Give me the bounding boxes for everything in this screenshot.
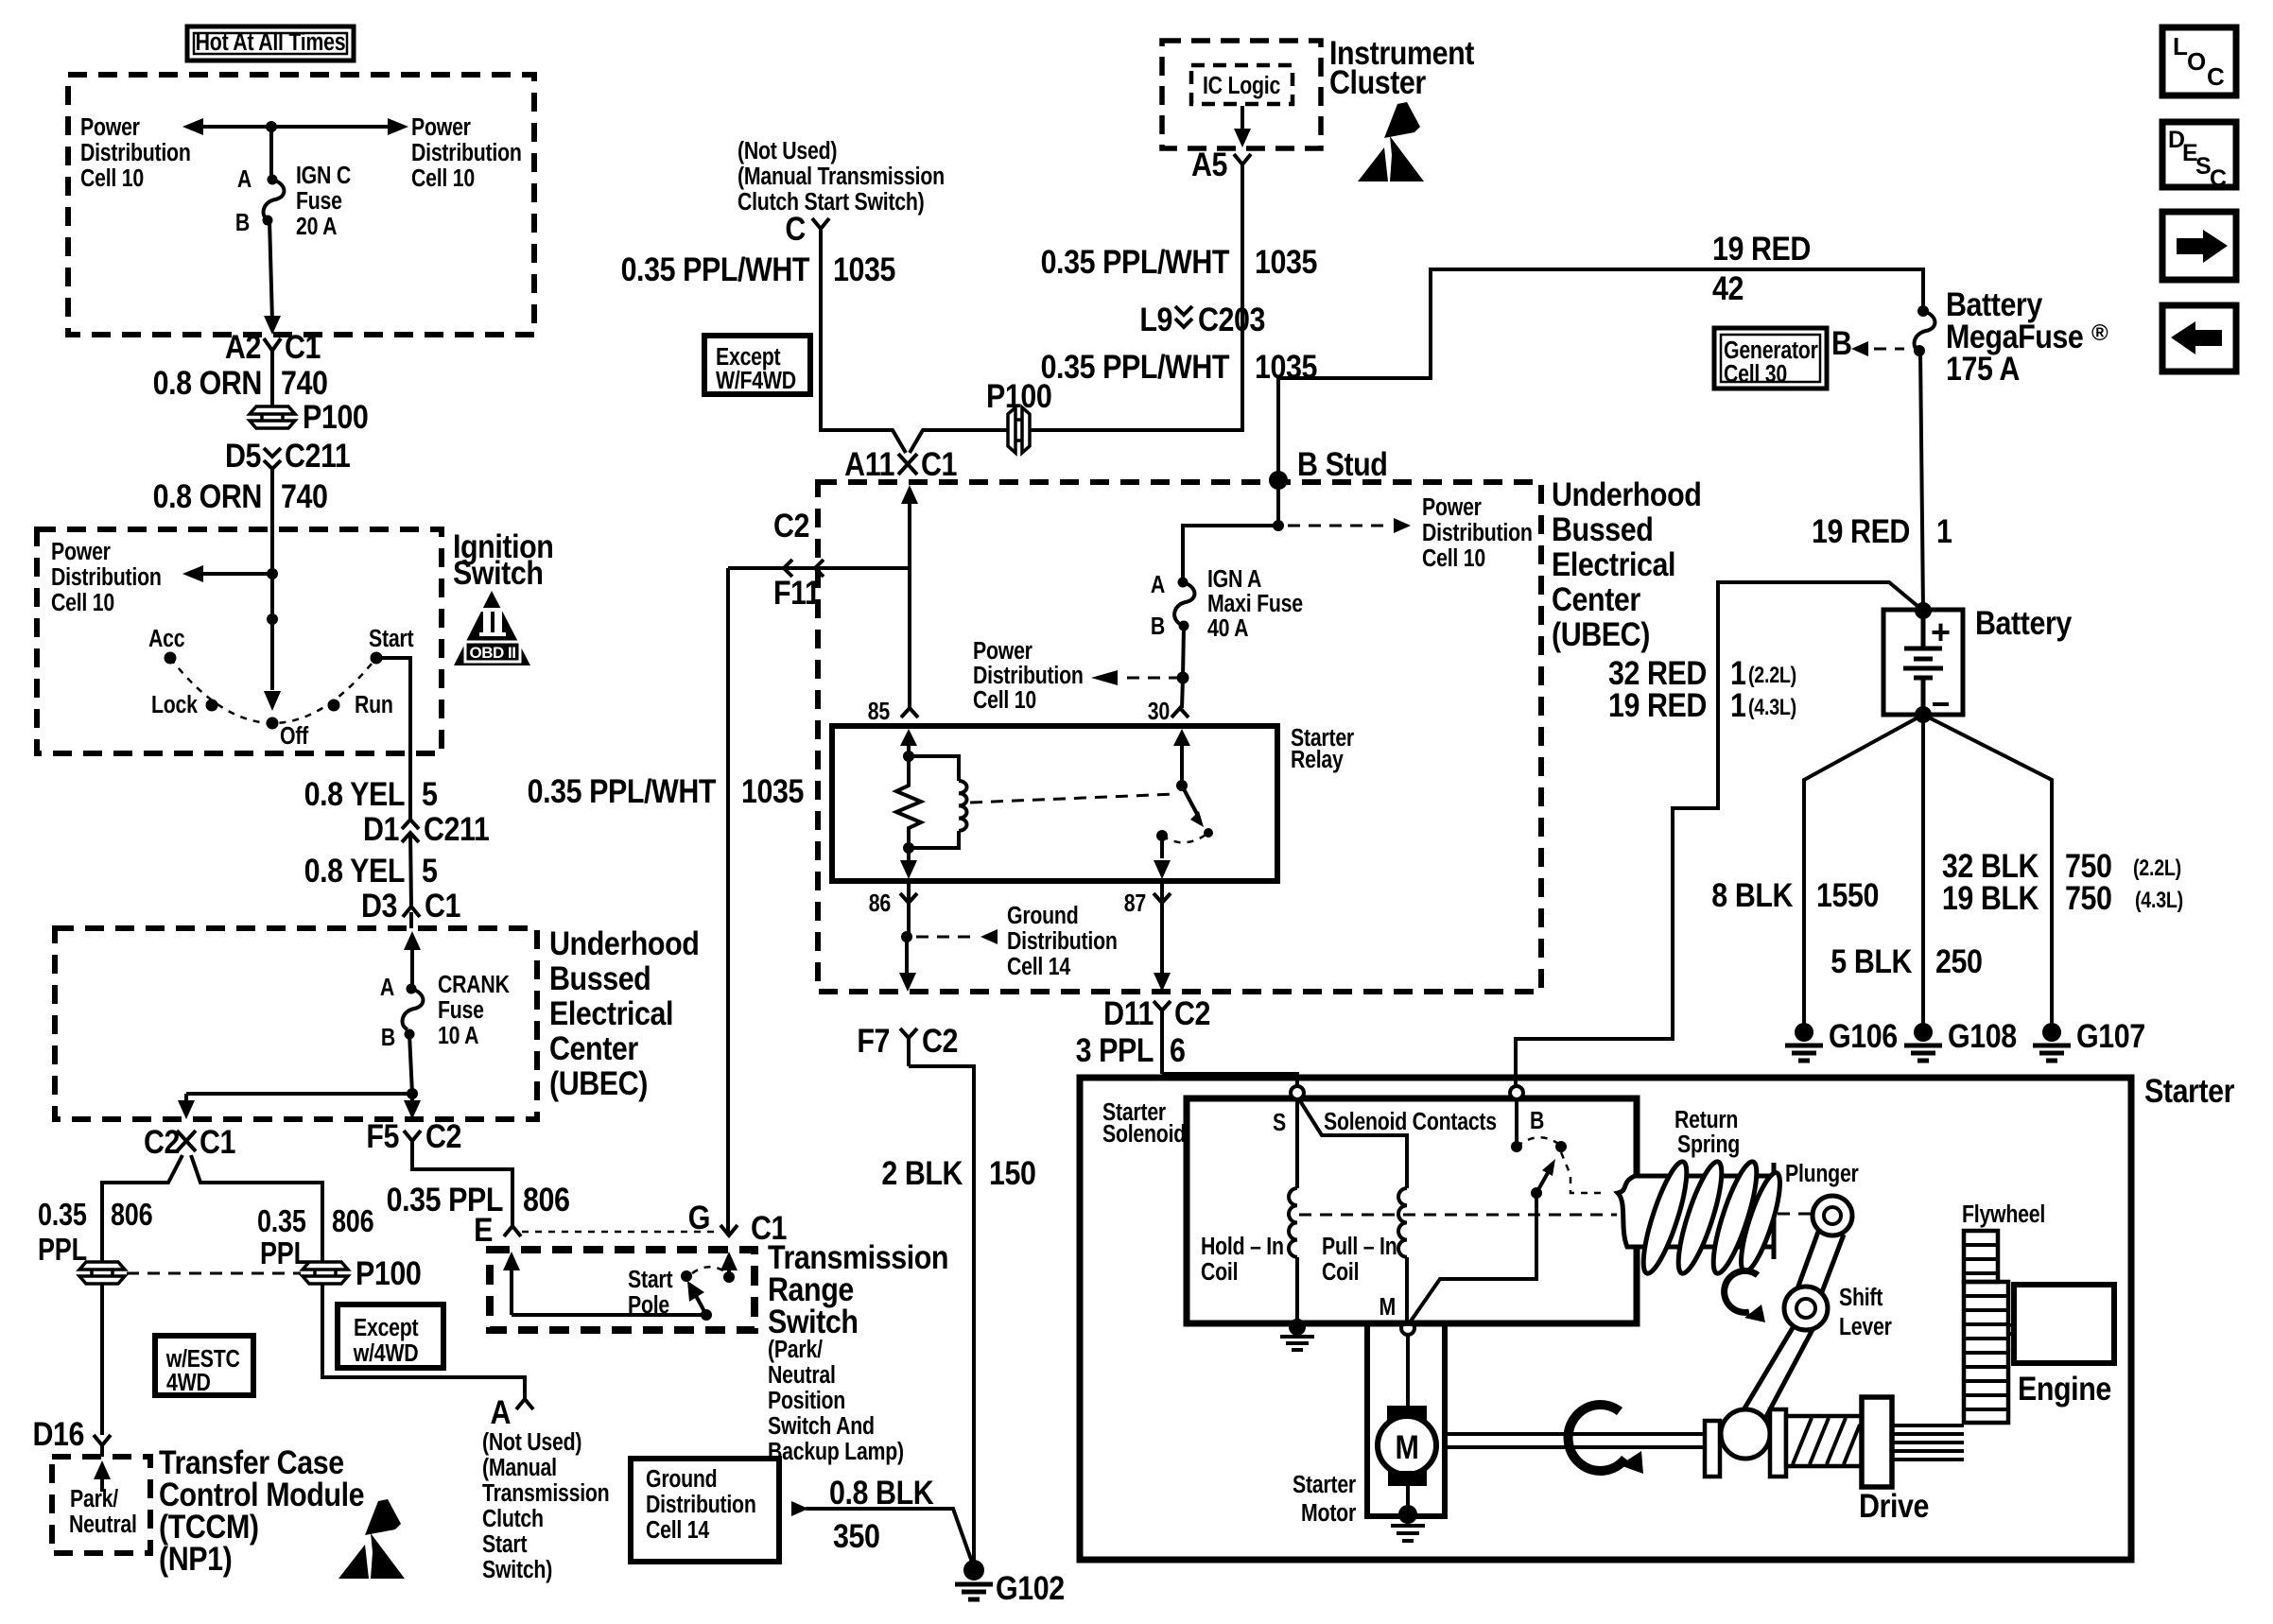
wire switch to 87 [1154, 836, 1171, 879]
svg-text:B: B [1831, 324, 1852, 361]
wire start pole common [512, 1309, 712, 1321]
label 0.35 PPL/WHT 1035 (lower) [1041, 348, 1318, 385]
connector F5/C2 [366, 1117, 461, 1155]
label Transmission Range Switch [768, 1238, 948, 1339]
svg-text:G107: G107 [2076, 1017, 2145, 1054]
label 0.8 YEL 5 (lower) [304, 852, 438, 889]
wire fuse B to box edge [264, 220, 281, 335]
svg-text:Fuse: Fuse [438, 996, 484, 1025]
svg-text:Ground: Ground [1007, 902, 1078, 930]
label Power Distribution Cell 10 (right) [411, 113, 522, 193]
svg-text:Distribution: Distribution [1422, 519, 1533, 547]
svg-text:Off: Off [280, 722, 308, 751]
label Transfer Case Control Module (TCCM) (NP1) [159, 1443, 364, 1577]
rotation arrow (shift lever) [1725, 1270, 1765, 1322]
label Park/Neutral [69, 1485, 137, 1539]
svg-text:0.8 YEL: 0.8 YEL [304, 775, 406, 812]
svg-text:C2: C2 [144, 1123, 180, 1160]
node: power distribution bus arrow [182, 118, 408, 135]
label Power Distribution Cell 10 (B stud) [1422, 493, 1533, 573]
svg-text:1035: 1035 [741, 772, 804, 809]
label box "Hot At All Times" [187, 26, 354, 60]
svg-text:+: + [1931, 613, 1951, 651]
label 0.35 PPL/WHT 1035 (relay coil wire) [528, 772, 805, 809]
svg-text:IC Logic: IC Logic [1203, 72, 1280, 100]
svg-text:0.8 YEL: 0.8 YEL [304, 852, 406, 889]
wire S to pull-in coil [1299, 1099, 1407, 1188]
svg-text:Pull – In: Pull – In [1322, 1233, 1397, 1261]
svg-text:D3: D3 [361, 887, 397, 924]
label 0.35 PPL/WHT 1035 (upper) [1041, 243, 1318, 280]
svg-text:86: 86 [869, 890, 891, 918]
wire F5 to E [412, 1155, 512, 1225]
grommet P100 (horizontal wire) [986, 377, 1051, 453]
svg-text:Cell 14: Cell 14 [646, 1516, 710, 1545]
svg-text:0.8 BLK: 0.8 BLK [829, 1474, 934, 1511]
fuse CRANK 10 A [380, 971, 510, 1052]
resistor (relay coil suppression) [896, 756, 921, 848]
svg-text:Lever: Lever [1839, 1313, 1892, 1341]
grommet P100 (left) [79, 1262, 125, 1284]
label Ignition Switch [453, 527, 553, 591]
svg-text:C211: C211 [285, 437, 351, 474]
svg-text:(UBEC): (UBEC) [549, 1064, 648, 1101]
svg-text:Start: Start [369, 625, 414, 653]
wire fuse B down to junction [407, 1034, 418, 1099]
ground (hold-in coil) [1280, 1337, 1314, 1350]
svg-text:42: 42 [1712, 269, 1744, 306]
svg-text:Power: Power [411, 113, 471, 142]
connector A (not used) [490, 1393, 533, 1430]
label Power Distribution Cell 10 [51, 538, 162, 617]
rotation arrow (shaft) [1569, 1405, 1643, 1474]
svg-text:F11: F11 [773, 574, 821, 611]
svg-text:Power: Power [80, 113, 140, 142]
starter motor [1378, 1406, 1436, 1511]
svg-text:S: S [1273, 1109, 1286, 1137]
contact Start [681, 1270, 692, 1282]
svg-text:Hold – In: Hold – In [1201, 1233, 1284, 1261]
svg-text:(Not Used): (Not Used) [737, 137, 837, 165]
svg-text:Spring: Spring [1677, 1131, 1740, 1159]
switch arm start pole [687, 1281, 706, 1315]
svg-text:Transmission: Transmission [482, 1479, 609, 1508]
reference box arrow left [2162, 305, 2236, 371]
svg-text:(Manual: (Manual [482, 1454, 557, 1482]
ESD symbol (TCCM) [338, 1499, 405, 1579]
svg-text:Center: Center [1552, 580, 1640, 617]
wire arm to M [1410, 1193, 1536, 1322]
node power distribution tap (IGN A) [1091, 670, 1178, 685]
svg-text:5: 5 [422, 852, 438, 889]
svg-text:(UBEC): (UBEC) [1552, 615, 1650, 652]
svg-text:806: 806 [523, 1181, 570, 1218]
svg-text:Pole: Pole [628, 1291, 669, 1320]
label Starter Relay [1291, 724, 1354, 774]
dashed actuation link [970, 794, 1175, 803]
svg-text:Switch: Switch [453, 554, 544, 591]
svg-text:0.35: 0.35 [38, 1199, 87, 1233]
svg-text:Fuse: Fuse [296, 187, 342, 216]
wire 86 to F7 [899, 937, 916, 992]
svg-text:(Not Used): (Not Used) [482, 1428, 581, 1457]
wire to Off contact [264, 574, 281, 711]
label Pull-In Coil [1322, 1233, 1397, 1287]
connector D11/C2 [1103, 994, 1210, 1074]
wire G up to C2/F11 [726, 568, 730, 1235]
svg-text:D1: D1 [363, 810, 399, 847]
svg-text:B: B [235, 209, 250, 237]
svg-text:G106: G106 [1829, 1017, 1898, 1054]
label Instrument Cluster [1329, 34, 1474, 100]
connector A2/C1 [225, 328, 321, 365]
svg-text:740: 740 [281, 364, 328, 401]
label box Ground Distribution Cell 14 [631, 1459, 779, 1562]
connector C2/F11 [728, 507, 910, 611]
terminal 86 [869, 881, 917, 937]
UBEC box 3 (CRANK) dashed [55, 928, 537, 1119]
svg-text:20 A: 20 A [296, 213, 337, 241]
svg-text:C211: C211 [424, 810, 490, 847]
svg-text:PPL: PPL [260, 1237, 309, 1271]
label 0.35 PPL 806 (left) [38, 1199, 152, 1268]
svg-text:P100: P100 [986, 377, 1051, 414]
wire D3 into UBEC3 [404, 912, 421, 988]
svg-text:C1: C1 [200, 1123, 235, 1160]
wire hold-in coil to ground [1289, 1257, 1306, 1336]
ground G108 [1904, 1017, 2017, 1061]
svg-text:C1: C1 [285, 328, 321, 365]
svg-text:C2: C2 [922, 1022, 958, 1059]
svg-text:D11: D11 [1103, 994, 1154, 1031]
relay coil [903, 756, 967, 854]
ground G107 [2033, 1017, 2145, 1061]
svg-text:Battery: Battery [1975, 604, 2073, 641]
svg-text:Shift: Shift [1839, 1284, 1883, 1312]
svg-text:A: A [490, 1393, 511, 1430]
shaft flange [1705, 1421, 1720, 1477]
wire 0.8 YEL 5 [410, 833, 411, 907]
connector C [785, 210, 829, 247]
svg-text:Relay: Relay [1291, 746, 1345, 774]
svg-text:Solenoid: Solenoid [1102, 1120, 1186, 1149]
svg-text:Electrical: Electrical [1552, 545, 1675, 582]
svg-text:Except: Except [354, 1314, 419, 1342]
return spring + plunger [1618, 1106, 1859, 1277]
svg-text:Underhood: Underhood [1552, 475, 1701, 512]
svg-text:D5: D5 [225, 437, 261, 474]
mechanical link dashed [1299, 1214, 1617, 1217]
svg-text:Ground: Ground [646, 1465, 717, 1494]
wire left branch to D16 [100, 1284, 104, 1435]
svg-text:G: G [688, 1199, 710, 1235]
label 19 RED 1 [1812, 512, 1952, 549]
terminal M [1379, 1293, 1414, 1335]
wire 0.8 ORN 740 (lower) [270, 469, 274, 574]
svg-text:0.35 PPL/WHT: 0.35 PPL/WHT [528, 772, 717, 809]
svg-text:1: 1 [1730, 686, 1746, 723]
connector A11/C1 (X) [844, 445, 957, 482]
svg-text:Underhood: Underhood [549, 924, 699, 961]
wire G102 (0.8 BLK 350) [791, 1501, 974, 1567]
terminal 30 [1148, 698, 1189, 726]
wire bus to fuse A [269, 127, 273, 180]
wire C down [821, 229, 906, 453]
wire 0.8 ORN 740 (upper) [270, 363, 274, 406]
wire split below C2/C1 [102, 1155, 322, 1263]
svg-text:19 RED: 19 RED [1712, 230, 1811, 267]
connector L9/C203 [1139, 301, 1265, 337]
wire Start to D1 [376, 658, 410, 821]
svg-text:A: A [237, 165, 252, 194]
svg-text:PPL: PPL [38, 1234, 87, 1268]
svg-text:Cell 10: Cell 10 [80, 164, 144, 193]
label 0.8 ORN 740 [153, 477, 328, 514]
svg-text:Electrical: Electrical [549, 994, 673, 1031]
svg-text:Hot At All Times: Hot At All Times [196, 28, 346, 57]
OBD II symbol [454, 591, 530, 665]
svg-text:Distribution: Distribution [1007, 927, 1118, 956]
svg-text:0.35 PPL/WHT: 0.35 PPL/WHT [1041, 348, 1230, 385]
svg-text:87: 87 [1124, 890, 1146, 918]
svg-text:Position: Position [768, 1387, 845, 1415]
label box Generator Cell 30 [1714, 328, 1827, 389]
wire coil to 86 [900, 848, 917, 879]
drive shaft splines [1892, 1425, 1964, 1460]
svg-text:G108: G108 [1948, 1017, 2017, 1054]
terminal S [1273, 1086, 1304, 1137]
svg-text:Starter: Starter [1293, 1471, 1356, 1499]
svg-text:(NP1): (NP1) [159, 1540, 232, 1577]
label Power Distribution Cell 10 (left) [80, 113, 191, 193]
label 32 BLK 750 (2.2L) / 19 BLK 750 (4.3L) [1942, 847, 2183, 916]
svg-text:85: 85 [868, 698, 890, 726]
label (Park/Neutral Position Switch And Backup Lamp) [768, 1336, 904, 1466]
label box w/ESTC 4WD [155, 1336, 253, 1397]
drive ball [1721, 1409, 1770, 1459]
svg-text:0.35 PPL/WHT: 0.35 PPL/WHT [1041, 243, 1230, 280]
svg-text:Power: Power [51, 538, 111, 566]
wire battery+ to starter B (32 RED / 19 RED) [1516, 582, 1923, 1086]
dashed link plunger to shift lever [1778, 1213, 1812, 1216]
wire M to motor [1406, 1335, 1410, 1407]
svg-text:Start: Start [482, 1530, 528, 1559]
svg-text:Coil: Coil [1322, 1258, 1359, 1287]
grommet P100 (A2 wire) [250, 398, 368, 435]
svg-text:Distribution: Distribution [646, 1491, 756, 1519]
svg-text:F7: F7 [857, 1022, 890, 1059]
svg-text:19 BLK: 19 BLK [1942, 879, 2039, 916]
dashed throw arc [692, 1267, 726, 1273]
wire battery- to grounds [1804, 715, 2052, 1030]
connector D5/C211 [225, 437, 351, 474]
wire not-used link E to G (thin dashed) [522, 1231, 719, 1234]
svg-text:IGN C: IGN C [296, 162, 351, 190]
svg-text:Backup Lamp): Backup Lamp) [768, 1438, 904, 1466]
ESD symbol (instrument cluster) [1358, 102, 1424, 181]
IC Logic inner dashed box [1191, 65, 1293, 104]
label 0.8 BLK 350 [829, 1474, 934, 1554]
svg-text:Cell 10: Cell 10 [51, 589, 114, 617]
Instrument Cluster dashed box [1162, 41, 1321, 148]
drive spline bar [1770, 1409, 1786, 1477]
UBEC box 1 (Hot At All Times) dashed [68, 75, 534, 335]
label 3 PPL 6 [1076, 1031, 1186, 1068]
node B Stud [1269, 445, 1387, 490]
svg-text:A5: A5 [1191, 146, 1227, 182]
svg-text:Neutral: Neutral [768, 1361, 836, 1390]
svg-text:C2: C2 [773, 507, 809, 544]
svg-text:W/F4WD: W/F4WD [716, 367, 796, 395]
label 5 BLK 250 [1831, 942, 1982, 979]
svg-text:30: 30 [1148, 698, 1170, 726]
svg-text:C1: C1 [921, 445, 957, 482]
label 19 RED / 42 [1712, 230, 1811, 306]
svg-text:L9: L9 [1139, 301, 1172, 337]
fuse IGN A Maxi Fuse 40 A [1151, 565, 1303, 643]
svg-text:8 BLK: 8 BLK [1711, 876, 1794, 913]
label Underhood Bussed Electrical Center (UBEC) [549, 924, 699, 1101]
node E entry arrow [503, 1252, 520, 1315]
svg-text:A11: A11 [844, 445, 894, 482]
ground G106 [1785, 1017, 1898, 1061]
label 8 BLK 1550 [1711, 876, 1879, 913]
svg-text:Clutch: Clutch [482, 1505, 544, 1533]
svg-text:E: E [474, 1211, 493, 1248]
node G contact [720, 1252, 737, 1283]
svg-text:Distribution: Distribution [80, 139, 191, 167]
svg-text:Power: Power [1422, 493, 1482, 522]
svg-text:A: A [1151, 571, 1165, 599]
svg-text:D16: D16 [32, 1415, 84, 1452]
svg-text:Start: Start [628, 1266, 673, 1294]
wire megafuse to battery [1920, 351, 1923, 610]
svg-text:Distribution: Distribution [411, 139, 522, 167]
svg-text:w/4WD: w/4WD [353, 1339, 419, 1368]
svg-text:(4.3L): (4.3L) [2135, 887, 2183, 912]
svg-text:C: C [785, 210, 806, 247]
svg-text:Cell 14: Cell 14 [1007, 953, 1071, 981]
svg-text:1550: 1550 [1816, 876, 1879, 913]
svg-text:(Park/: (Park/ [768, 1336, 823, 1364]
label (Not Used)(Manual Transmission Clutch Start Switch) [482, 1428, 609, 1584]
svg-text:Run: Run [355, 691, 393, 719]
UBEC box 2 dashed [818, 482, 1541, 992]
connector A5 [1191, 146, 1251, 182]
svg-text:Acc: Acc [148, 625, 184, 653]
terminal B [1510, 1086, 1544, 1135]
svg-text:®: ® [2091, 320, 2108, 346]
reference box arrow right [2162, 212, 2236, 280]
svg-text:Lock: Lock [151, 691, 199, 719]
Starter Relay box [832, 726, 1277, 881]
svg-text:Cell 10: Cell 10 [411, 164, 475, 193]
svg-text:Flywheel: Flywheel [1962, 1201, 2045, 1229]
connector D16 [32, 1415, 111, 1457]
svg-text:Center: Center [549, 1029, 638, 1066]
svg-text:C1: C1 [425, 887, 460, 924]
label box Except w/4WD [338, 1304, 443, 1368]
svg-text:1035: 1035 [833, 251, 895, 287]
svg-text:4WD: 4WD [166, 1369, 211, 1397]
label 32 RED 1 (2.2L) / 19 RED 1 (4.3L) [1608, 654, 1796, 723]
label 0.35 PPL 806 [387, 1181, 570, 1218]
ignition switch contacts [148, 625, 414, 751]
svg-text:P100: P100 [303, 398, 368, 435]
svg-text:Solenoid Contacts: Solenoid Contacts [1324, 1108, 1497, 1136]
svg-text:C2: C2 [425, 1117, 461, 1154]
label Start Pole [628, 1266, 673, 1320]
grommet P100 (right) [303, 1254, 421, 1291]
wire A5 down [910, 164, 1242, 453]
svg-text:C: C [2210, 165, 2227, 192]
svg-text:Cell 10: Cell 10 [973, 686, 1036, 715]
svg-text:CRANK: CRANK [438, 971, 510, 999]
svg-text:P100: P100 [356, 1254, 421, 1291]
svg-text:19 RED: 19 RED [1812, 512, 1910, 549]
svg-text:Distribution: Distribution [51, 563, 162, 592]
solenoid switch arm [1531, 1159, 1555, 1199]
svg-text:Drive: Drive [1859, 1487, 1929, 1524]
Transmission Range Switch dashed box [490, 1250, 755, 1330]
svg-text:0.35: 0.35 [257, 1205, 306, 1239]
node Park/Neutral input arrow [94, 1460, 111, 1492]
svg-text:Cell 10: Cell 10 [1422, 544, 1485, 573]
svg-text:(4.3L): (4.3L) [1748, 694, 1796, 719]
svg-text:A: A [380, 974, 394, 1002]
pull-in coil [1398, 1188, 1407, 1257]
label Ground Distribution Cell 14 [1007, 902, 1118, 981]
relay switch [1156, 780, 1213, 842]
svg-text:806: 806 [332, 1205, 373, 1239]
svg-text:B Stud: B Stud [1297, 445, 1387, 482]
label (Not Used)(Manual Transmission Clutch Start Switch) top [737, 137, 945, 216]
node solenoid contact (moving) [1555, 1141, 1603, 1193]
wire 19 RED 42 [1278, 269, 1923, 480]
svg-text:C: C [2207, 62, 2225, 91]
label 0.8 YEL 5 (upper) [304, 775, 438, 812]
wire right branch to A (not used) [322, 1284, 525, 1398]
fuse Battery MegaFuse 175 A [1914, 285, 2108, 387]
svg-text:M: M [1396, 1428, 1419, 1465]
svg-text:5: 5 [422, 775, 438, 812]
svg-text:B: B [1530, 1107, 1544, 1135]
svg-text:Switch And: Switch And [768, 1412, 875, 1441]
drive helix [1786, 1416, 1862, 1466]
svg-text:M: M [1379, 1293, 1396, 1322]
label 0.8 ORN 740 [153, 364, 328, 401]
svg-text:Cluster: Cluster [1329, 63, 1426, 100]
node 30 entry arrow [1173, 729, 1190, 786]
label Starter Solenoid [1102, 1098, 1186, 1149]
svg-text:40 A: 40 A [1207, 614, 1248, 643]
label Hold-In Coil [1201, 1233, 1284, 1287]
dashed contact arc B [1517, 1137, 1561, 1147]
label 0.35 PPL 806 (middle) [257, 1205, 373, 1271]
svg-text:Motor: Motor [1301, 1499, 1356, 1528]
hold-in coil [1289, 1188, 1297, 1257]
svg-text:175 A: 175 A [1946, 350, 2020, 387]
terminal 87 wire [1124, 881, 1171, 992]
reference box DESC [2162, 122, 2236, 192]
svg-text:6: 6 [1170, 1031, 1186, 1068]
svg-text:F5: F5 [366, 1117, 399, 1154]
svg-text:740: 740 [281, 477, 328, 514]
wire hold-in coil from S [1295, 1099, 1299, 1188]
svg-text:(Manual Transmission: (Manual Transmission [737, 163, 945, 191]
wire F7 to G102 (2 BLK 150) [909, 1066, 974, 1564]
node power distribution tap (B stud) [1273, 518, 1411, 533]
